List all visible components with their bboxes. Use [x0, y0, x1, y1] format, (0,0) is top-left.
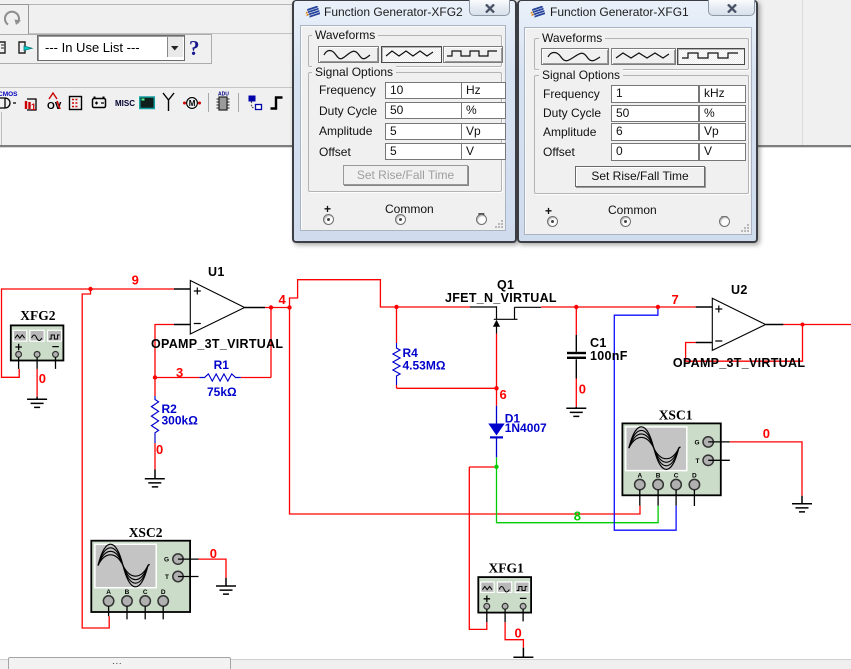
svg-text:U1: U1 [208, 265, 225, 279]
svg-text:6: 6 [500, 387, 507, 402]
svg-text:XSC1: XSC1 [659, 408, 693, 423]
svg-text:B: B [125, 589, 130, 596]
svg-text:C1: C1 [590, 336, 607, 350]
svg-text:0: 0 [579, 381, 586, 396]
svg-text:R1: R1 [214, 358, 230, 372]
svg-text:0: 0 [156, 442, 163, 457]
svg-text:3: 3 [176, 365, 183, 380]
svg-text:A: A [106, 589, 111, 596]
svg-text:0: 0 [210, 546, 217, 561]
svg-text:8: 8 [574, 508, 581, 523]
svg-text:0: 0 [515, 626, 522, 641]
svg-text:OPAMP_3T_VIRTUAL: OPAMP_3T_VIRTUAL [673, 356, 805, 370]
svg-text:D: D [161, 589, 166, 596]
svg-text:T: T [696, 458, 700, 465]
svg-text:Q1: Q1 [497, 278, 514, 292]
svg-text:4: 4 [279, 292, 287, 307]
svg-text:1N4007: 1N4007 [505, 421, 547, 435]
svg-text:0: 0 [763, 426, 770, 441]
svg-text:T: T [165, 574, 169, 581]
svg-text:OPAMP_3T_VIRTUAL: OPAMP_3T_VIRTUAL [151, 337, 283, 351]
svg-text:4.53MΩ: 4.53MΩ [403, 359, 446, 373]
svg-text:XFG1: XFG1 [489, 560, 524, 575]
svg-text:100nF: 100nF [590, 349, 628, 363]
svg-text:G: G [164, 557, 169, 564]
svg-text:C: C [143, 589, 148, 596]
svg-text:75kΩ: 75kΩ [207, 385, 237, 399]
svg-text:G: G [694, 439, 699, 446]
svg-text:300kΩ: 300kΩ [162, 414, 199, 428]
svg-text:0: 0 [39, 371, 46, 386]
svg-text:XFG2: XFG2 [20, 308, 55, 323]
svg-text:C: C [674, 473, 679, 480]
svg-text:B: B [656, 473, 661, 480]
svg-text:D: D [692, 473, 697, 480]
svg-text:9: 9 [132, 273, 139, 288]
svg-text:XSC2: XSC2 [129, 525, 163, 540]
svg-text:U2: U2 [731, 283, 748, 297]
svg-text:7: 7 [672, 292, 679, 307]
svg-text:A: A [637, 473, 642, 480]
svg-text:JFET_N_VIRTUAL: JFET_N_VIRTUAL [445, 291, 557, 305]
